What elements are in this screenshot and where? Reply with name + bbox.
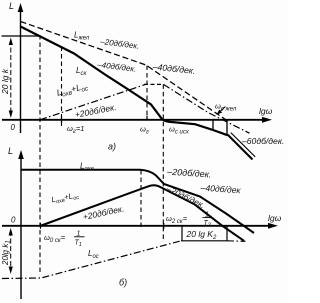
svg-text:20 lg k: 20 lg k <box>0 68 10 95</box>
Lohv curve (bottom, thick) <box>21 170 254 233</box>
L-sk corrected curve (solid thick) <box>21 27 228 136</box>
rotated label 20lgk1 (bottom) <box>1 240 12 266</box>
flat dashed top of Lohv+Los <box>144 83 164 85</box>
svg-text:а): а) <box>108 142 116 152</box>
axis arrowhead right (bottom) <box>268 223 278 229</box>
label Lohv+Los (top) <box>56 80 90 99</box>
axis arrowhead right (top) <box>262 117 272 123</box>
Los flat dash-dot tail <box>227 240 246 243</box>
fraction bar 1/T1 <box>74 236 85 238</box>
dashed vertical omega=1 (x=40) <box>39 35 41 273</box>
L axis arrowhead (top) <box>18 3 24 12</box>
label Lohv+Los (bottom) <box>51 190 80 206</box>
omega-c-zhel leader arrow <box>219 107 226 113</box>
dashed vertical x=61.5 <box>61 47 63 128</box>
svg-text:0: 0 <box>11 216 16 225</box>
svg-text:L: L <box>8 146 13 156</box>
svg-text:б): б) <box>119 278 127 288</box>
20lgk1 dimension arrow <box>10 231 12 270</box>
svg-text:–60дб/дек.: –60дб/дек. <box>241 136 284 146</box>
Los dash-dot line <box>2 241 181 279</box>
L axis (top plot) <box>20 6 22 133</box>
Lohv+Los curve (bottom, thick) <box>40 185 244 241</box>
rotated label 20lgk (top) <box>0 68 10 95</box>
svg-text:lgω: lgω <box>268 213 282 223</box>
L-zhel desired curve (dashed) <box>21 22 228 121</box>
dashed vertical x=163.3 <box>162 84 164 242</box>
tick x=61.5 on top axis <box>61 117 63 124</box>
lg-omega axis (bottom plot) <box>2 225 274 227</box>
label -20db/dek (bottom rotated) <box>164 183 206 210</box>
svg-text:lgω: lgω <box>259 106 273 116</box>
Los flat solid segment (box bottom) <box>181 240 227 242</box>
svg-text:0: 0 <box>11 123 16 132</box>
vertical tick x=227 below axis <box>226 120 228 135</box>
L axis arrowhead (bottom) <box>18 150 24 159</box>
label +20db/dek (top) <box>74 102 117 120</box>
box tick x=182 <box>181 226 183 241</box>
dashed vertical x=141 (bottom) <box>140 170 142 228</box>
tick x=147 on top axis <box>146 116 148 121</box>
20lgk level line <box>2 35 41 37</box>
minus60 double line thin stroke <box>231 133 255 157</box>
label -20db/dek (top) <box>99 37 140 51</box>
label +20db/dek (bottom) <box>82 203 125 222</box>
20lgk dimension arrow <box>10 40 12 114</box>
svg-text:20lg k1: 20lg k1 <box>1 240 12 266</box>
dashed vertical x=147 <box>146 66 148 121</box>
label -40db/dek (bottom) <box>199 182 241 195</box>
rising dash-dot Lohv+Los (top) <box>40 85 145 120</box>
descending dash-dot Lohv+Los (top) <box>164 84 250 133</box>
lg-omega axis (top plot) <box>2 119 268 121</box>
minus60 double line solid stroke <box>228 135 253 160</box>
svg-text:1: 1 <box>77 231 81 238</box>
svg-text:1: 1 <box>205 212 209 219</box>
label -40db/dek no.2 <box>151 61 196 76</box>
tick x=163.7 bottom axis <box>163 223 165 229</box>
label -20db/dek (bottom horizontal) <box>166 166 212 179</box>
label -40db/dek no.1 <box>96 60 137 74</box>
L axis (bottom plot) <box>20 153 22 299</box>
vertical tick x=213 below axis <box>212 120 214 130</box>
tick x=40.5 bottom axis <box>40 223 42 229</box>
svg-text:L: L <box>9 1 14 11</box>
box tick x=227 <box>226 226 228 241</box>
fraction bar 1/T2 <box>203 217 213 219</box>
